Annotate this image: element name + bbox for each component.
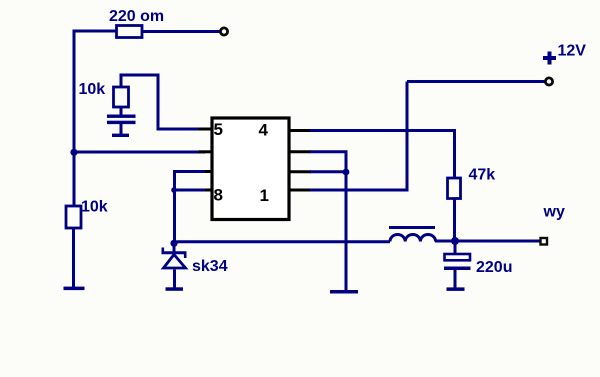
svg-text:220u: 220u bbox=[476, 259, 512, 276]
node junction on left rail bbox=[70, 149, 77, 156]
IC pin stub left 3 bbox=[199, 170, 213, 173]
wire IC right pin2 to ground rail (right then down) bbox=[310, 152, 346, 290]
IC pin stub right 3 bbox=[289, 170, 311, 173]
wire +12V rail horizontal bbox=[407, 80, 545, 83]
wire from R220om to terminal bbox=[142, 30, 220, 33]
terminal circle +12V bbox=[545, 78, 552, 85]
svg-text:8: 8 bbox=[214, 186, 223, 205]
svg-text:47k: 47k bbox=[469, 167, 496, 184]
wire output node to 220u bbox=[454, 241, 457, 254]
capacitor C (under 10k top) plate 1 bbox=[107, 115, 136, 118]
svg-text:10k: 10k bbox=[81, 199, 108, 216]
wire diode node to inductor bbox=[174, 240, 390, 243]
ground (under 220u) bbox=[447, 287, 465, 291]
wire inductor to output node bbox=[435, 240, 455, 243]
resistor 10k bottom bbox=[66, 206, 81, 228]
wire pin1 to +12V rail (right then up) bbox=[310, 82, 407, 191]
ground (under capacitor) bbox=[112, 134, 129, 137]
wire 47k to output node bbox=[453, 199, 456, 242]
node junction pin8 bbox=[171, 187, 177, 193]
IC pin stub right 2 bbox=[289, 150, 311, 153]
wire capacitor to ground bbox=[120, 124, 123, 134]
ground (under left 10k) bbox=[64, 287, 85, 291]
wire 220u to ground bbox=[454, 270, 457, 288]
wire IC right pin3 to ground rail bbox=[310, 170, 346, 173]
wire from 10k top to pin5 (up, right, down, right) bbox=[121, 75, 205, 129]
ground (middle, under IC area) bbox=[330, 290, 358, 294]
svg-text:wy: wy bbox=[543, 204, 565, 221]
svg-text:12V: 12V bbox=[558, 43, 587, 60]
plus sign of 12V supply bbox=[543, 52, 556, 65]
resistor 10k top bbox=[114, 87, 129, 107]
node junction (pin3 / ground rail) bbox=[343, 169, 350, 176]
node junction diode top bbox=[170, 240, 177, 247]
ground (under diode) bbox=[166, 287, 184, 291]
node junction output (47k / L / C / wy) bbox=[451, 237, 459, 245]
svg-text:sk34: sk34 bbox=[192, 258, 228, 275]
svg-text:220 om: 220 om bbox=[109, 8, 164, 25]
capacitor 220u bottom plate bbox=[444, 267, 471, 271]
resistor 220om bbox=[117, 26, 143, 38]
IC pin stub left 1 (pin 5) bbox=[199, 128, 213, 131]
svg-text:10k: 10k bbox=[79, 81, 106, 98]
diode sk34 (schottky, cathode up) bbox=[162, 243, 187, 288]
wire output node to wy terminal bbox=[455, 240, 540, 243]
wire left rail to IC pin (second left) bbox=[74, 151, 205, 154]
terminal circle (220om output) bbox=[220, 28, 227, 35]
svg-text:5: 5 bbox=[214, 120, 223, 139]
resistor 47k bbox=[448, 178, 461, 199]
wire top horizontal left of R 220om bbox=[73, 30, 118, 33]
svg-text:4: 4 bbox=[259, 121, 269, 140]
wire pin4 to 47k (right then down) bbox=[310, 131, 455, 179]
svg-text:1: 1 bbox=[260, 186, 269, 205]
capacitor C plate 2 bbox=[107, 121, 136, 124]
IC pin stub left 4 (pin 8) bbox=[199, 189, 213, 192]
wire pin8 to diode rail bbox=[175, 189, 206, 192]
wire left rail vertical bbox=[73, 31, 76, 206]
wire 10k bottom to capacitor bbox=[120, 107, 123, 115]
IC U1 body bbox=[212, 118, 289, 220]
wire 10k bottom to ground bbox=[72, 228, 75, 287]
IC pin stub right 1 (pin 4) bbox=[289, 129, 311, 132]
inductor core bar bbox=[389, 226, 435, 229]
capacitor 220u top plate (hollow) bbox=[445, 254, 471, 260]
IC pin stub left 2 bbox=[199, 150, 213, 153]
inductor L1 (3 humps) bbox=[390, 235, 436, 242]
terminal square wy bbox=[541, 238, 548, 245]
wire IC left pin3 down to diode (left then down) bbox=[175, 172, 206, 244]
IC pin stub right 4 (pin 1) bbox=[289, 189, 311, 192]
